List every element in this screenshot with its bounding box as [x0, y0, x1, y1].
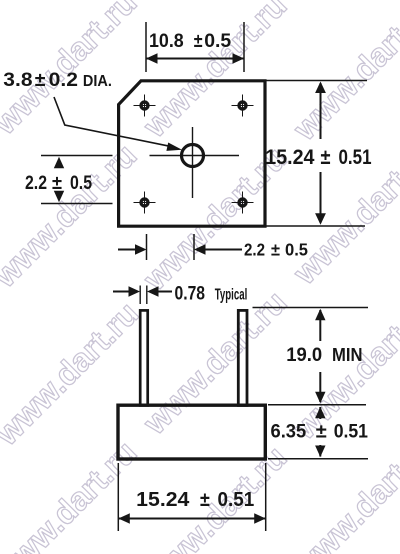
dim 15.24 bottom arrow line	[118, 513, 265, 523]
side view body	[118, 405, 265, 459]
watermark run 3	[136, 0, 294, 145]
side view right lead	[238, 310, 247, 405]
dim 15.24 bottom text	[136, 489, 254, 511]
pin hole top-right	[232, 95, 254, 117]
dim 19.0 extension top	[253, 307, 369, 309]
svg-text:±: ±	[52, 172, 62, 194]
center hole crosshair horizontal	[150, 155, 240, 157]
dim 6.35 extension top	[268, 404, 366, 406]
watermark run 12	[286, 427, 400, 554]
dim 15.24 right arrow line	[315, 82, 326, 225]
leader arrowhead	[166, 143, 182, 151]
svg-text:19.0: 19.0	[286, 344, 322, 366]
dim 2.2 bottom text	[244, 240, 308, 260]
svg-text:0.5: 0.5	[70, 172, 92, 194]
dim 0.78 text	[175, 283, 248, 305]
center hole	[182, 145, 204, 167]
pin hole top-left	[134, 95, 156, 117]
dim 2.2 left extension bottom	[41, 203, 113, 205]
side view left lead	[140, 310, 148, 405]
dim 0.78 extension right	[146, 286, 148, 305]
watermark run 8	[136, 284, 294, 442]
dim 2.2 bottom left arrow	[118, 244, 147, 254]
dim 2.2 bottom right arrow	[194, 244, 242, 254]
svg-text:Typical: Typical	[215, 287, 248, 304]
dim 15.24 right text	[265, 146, 371, 169]
svg-text:±: ±	[316, 421, 327, 443]
svg-text:0.51: 0.51	[218, 489, 255, 511]
dim 2.2 left extension top	[41, 155, 113, 157]
dim 10.8 extension line left	[145, 22, 147, 72]
pin hole bottom-left	[134, 192, 156, 214]
dim 6.35 text	[271, 421, 369, 443]
watermark run 4	[0, 295, 145, 453]
dim 10.8 extension line right	[243, 22, 245, 72]
dim 19.0 arrow line	[315, 309, 325, 404]
dim 19.0 text	[286, 344, 362, 366]
watermark run 11	[286, 289, 400, 447]
dim 15.24 bottom extension right	[265, 463, 267, 531]
dim 2.2 left arrows	[54, 157, 64, 202]
dim 10.8 text	[149, 30, 231, 52]
watermark run 2	[0, 137, 143, 295]
dim 15.24 right extension bottom	[266, 225, 365, 227]
dim 2.2 bottom tick left	[146, 234, 148, 260]
svg-text:0.51: 0.51	[334, 421, 368, 443]
center hole crosshair vertical	[192, 127, 194, 198]
svg-text:±: ±	[35, 69, 46, 91]
svg-text:15.24: 15.24	[265, 146, 314, 169]
watermark run 6	[286, 0, 400, 148]
leader line to center hole	[54, 97, 170, 146]
dim 6.35 arrows	[315, 407, 325, 457]
dim 0.78 right arrow	[147, 286, 172, 296]
svg-text:MIN: MIN	[332, 345, 363, 365]
svg-text:15.24: 15.24	[136, 489, 190, 511]
svg-text:±: ±	[194, 30, 203, 52]
svg-text:2.2: 2.2	[244, 240, 265, 260]
dim 6.35 extension bottom	[268, 458, 368, 460]
svg-text:0.2: 0.2	[49, 69, 78, 91]
top view body outline with chamfer	[119, 81, 265, 226]
svg-text:±: ±	[321, 146, 331, 169]
watermark run 9	[286, 134, 400, 292]
svg-text:0.51: 0.51	[339, 146, 372, 169]
dim 15.24 right extension top	[266, 80, 367, 82]
svg-text:6.35: 6.35	[271, 421, 307, 443]
dim 2.2 left text	[25, 172, 92, 194]
svg-text:3.8: 3.8	[3, 69, 32, 91]
svg-text:±: ±	[271, 240, 280, 260]
svg-text:DIA.: DIA.	[83, 73, 112, 90]
svg-text:0.5: 0.5	[204, 30, 231, 52]
svg-text:10.8: 10.8	[149, 30, 184, 52]
dim 0.78 left arrow	[113, 286, 140, 296]
label 3.8 DIA text	[3, 69, 112, 91]
svg-text:2.2: 2.2	[25, 172, 47, 194]
pin hole bottom-right	[232, 192, 254, 214]
svg-text:0.78: 0.78	[175, 283, 206, 305]
svg-text:0.5: 0.5	[285, 240, 308, 260]
watermark run 7	[0, 434, 143, 554]
dim 2.2 bottom tick right	[193, 234, 195, 260]
watermark run 5	[136, 140, 294, 298]
watermark run 1	[0, 0, 143, 142]
svg-text:±: ±	[200, 489, 210, 511]
dim 0.78 extension left	[139, 286, 141, 305]
watermark run 10	[136, 439, 294, 554]
dim 15.24 bottom extension left	[117, 463, 119, 531]
dim 10.8 arrow line	[146, 53, 244, 63]
